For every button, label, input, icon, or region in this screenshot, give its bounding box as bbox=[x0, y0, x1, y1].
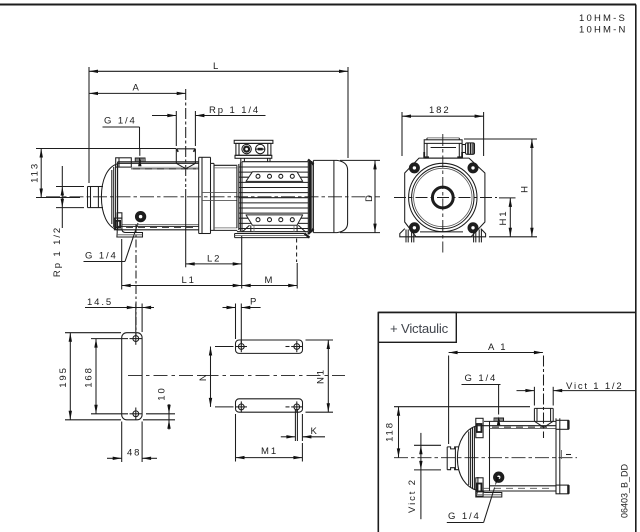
G 1/4 plug on top bbox=[494, 418, 503, 421]
victaulic label box bbox=[378, 312, 456, 342]
dimension 14.5 bbox=[85, 307, 154, 309]
pump foot bbox=[476, 477, 502, 497]
motor body octagon outline bbox=[405, 158, 485, 237]
Vict 1 1/2 dimension bbox=[517, 387, 636, 406]
dimension N1 bbox=[327, 340, 329, 412]
dimension A1 bbox=[449, 352, 543, 354]
port centre line (A right extension) bbox=[185, 89, 187, 187]
dimension H1 bbox=[499, 198, 516, 237]
svg-text:N1: N1 bbox=[316, 368, 327, 384]
svg-text:H1: H1 bbox=[498, 210, 509, 226]
dimension 168 bbox=[95, 339, 97, 414]
shaft hidden lines bbox=[202, 192, 237, 194]
dimension P bbox=[223, 307, 236, 309]
G 1/4 plug on casing top bbox=[135, 158, 145, 162]
victaulic discharge port bbox=[534, 407, 553, 409]
dimension 113 bbox=[40, 149, 42, 198]
svg-text:+ Victaulic: + Victaulic bbox=[390, 321, 449, 336]
upper boss patch bbox=[246, 172, 303, 182]
G 1/4 top label bbox=[103, 127, 140, 156]
dimension K bbox=[281, 436, 296, 438]
svg-text:168: 168 bbox=[84, 366, 95, 388]
terminal box bbox=[234, 140, 273, 143]
port centre line bbox=[543, 356, 545, 439]
foot bolt slots bbox=[405, 230, 407, 243]
terminal box end view bbox=[424, 140, 462, 158]
dimension N bbox=[210, 347, 212, 407]
top strip bbox=[236, 340, 303, 353]
svg-text:L1: L1 bbox=[182, 275, 196, 286]
bolt hole top bbox=[133, 336, 139, 342]
pump foot bbox=[117, 230, 143, 237]
svg-text:Vict 2: Vict 2 bbox=[407, 478, 418, 513]
G 1/4 upper label bbox=[462, 385, 501, 415]
drain plug bbox=[495, 474, 502, 481]
dimension 182 bbox=[402, 112, 484, 156]
dimension 195 bbox=[69, 333, 71, 420]
dimension 10 bbox=[168, 404, 170, 430]
centre lines bbox=[442, 134, 444, 253]
plate bbox=[122, 333, 142, 420]
svg-text:G 1/4: G 1/4 bbox=[85, 251, 118, 262]
centre line through views bbox=[128, 375, 345, 377]
svg-text:A 1: A 1 bbox=[488, 342, 507, 353]
dimension 118 bbox=[394, 407, 530, 458]
victaulic pump centre line bbox=[394, 457, 577, 459]
svg-text:K: K bbox=[311, 426, 319, 437]
svg-text:118: 118 bbox=[385, 421, 396, 442]
dimension L bbox=[89, 70, 348, 72]
svg-text:195: 195 bbox=[58, 366, 69, 388]
concentric circles bbox=[409, 163, 477, 231]
svg-text:M: M bbox=[265, 275, 275, 286]
bolt hole bottom bbox=[133, 411, 139, 417]
svg-text:A: A bbox=[133, 83, 141, 94]
foot posts under patch bbox=[250, 225, 252, 232]
projection line to plate hole bbox=[135, 224, 137, 336]
svg-text:10: 10 bbox=[157, 386, 168, 400]
svg-text:N: N bbox=[198, 372, 209, 381]
dimension Rp 1 1/4 bbox=[152, 115, 176, 117]
fin lines bbox=[239, 166, 308, 168]
corner bolt bosses bbox=[411, 164, 418, 171]
lower boss patch bbox=[246, 215, 303, 225]
svg-text:10HM-N: 10HM-N bbox=[579, 25, 628, 36]
dimension M1 bbox=[236, 457, 303, 459]
title text 10HM-S / 10HM-N bbox=[579, 13, 628, 36]
dome end cap bbox=[101, 164, 117, 230]
dimension Rp 1 1/2 bbox=[61, 166, 63, 228]
casing corner lugs bbox=[116, 158, 132, 167]
centre line of shaft bbox=[46, 196, 380, 198]
dome cap bbox=[457, 426, 477, 491]
svg-text:D: D bbox=[364, 193, 375, 202]
shaft boss bbox=[432, 187, 453, 208]
fan cover bbox=[313, 160, 347, 232]
dimension D bbox=[340, 160, 380, 232]
casing bbox=[484, 420, 556, 422]
suction stub Rp 1 1/2 bbox=[88, 186, 104, 188]
casing outline bbox=[118, 161, 199, 163]
hidden bolt line bbox=[296, 239, 298, 263]
svg-text:113: 113 bbox=[30, 162, 41, 183]
svg-text:H: H bbox=[520, 184, 531, 193]
Vict 2 dimension bbox=[414, 433, 441, 519]
svg-text:M1: M1 bbox=[261, 446, 278, 457]
svg-text:P: P bbox=[250, 297, 258, 308]
bottom strip bbox=[236, 399, 303, 412]
svg-text:Vict 1 1/2: Vict 1 1/2 bbox=[566, 381, 623, 392]
hidden tie-rod dashes top/bottom bbox=[133, 168, 196, 170]
svg-text:Rp 1 1/4: Rp 1 1/4 bbox=[209, 105, 260, 116]
svg-text:Rp 1 1/2: Rp 1 1/2 bbox=[52, 226, 63, 277]
feet bbox=[400, 229, 486, 237]
dimension H bbox=[464, 139, 537, 237]
page top border bbox=[0, 4, 636, 6]
G 1/4 bottom label + leader bbox=[84, 223, 139, 336]
svg-text:48: 48 bbox=[127, 447, 141, 458]
arrowheads for dims bbox=[89, 70, 98, 73]
G 1/4 bottom leader bbox=[447, 522, 484, 524]
cable gland stub bbox=[462, 145, 465, 153]
dimension 48 bbox=[107, 457, 122, 459]
clamp lugs left bbox=[476, 418, 483, 437]
lantern/adapter bbox=[211, 162, 215, 164]
page right border bbox=[635, 5, 637, 532]
svg-text:10HM-S: 10HM-S bbox=[579, 13, 627, 24]
svg-text:182: 182 bbox=[429, 105, 451, 116]
victaulic box frame bbox=[378, 311, 636, 313]
fins body outline bbox=[242, 161, 308, 163]
right bracket bbox=[555, 418, 557, 494]
svg-text:L2: L2 bbox=[207, 254, 221, 265]
svg-text:G 1/4: G 1/4 bbox=[465, 373, 498, 384]
svg-text:G 1/4: G 1/4 bbox=[448, 511, 481, 522]
suction stub with victaulic groove bbox=[447, 447, 459, 449]
dimensions L2 / L1 / M bbox=[122, 189, 298, 290]
cable glands bbox=[242, 144, 251, 153]
svg-text:G 1/4: G 1/4 bbox=[104, 116, 137, 127]
dimension A bbox=[89, 92, 186, 94]
discharge port Rp 1 1/4 bbox=[176, 148, 195, 150]
motor foot bbox=[234, 234, 236, 238]
drain plug G 1/4 bbox=[137, 213, 144, 220]
svg-text:06403_B_DD: 06403_B_DD bbox=[620, 463, 630, 518]
rear flange disk bbox=[198, 157, 200, 233]
svg-text:L: L bbox=[213, 61, 220, 72]
svg-text:14.5: 14.5 bbox=[87, 297, 113, 308]
